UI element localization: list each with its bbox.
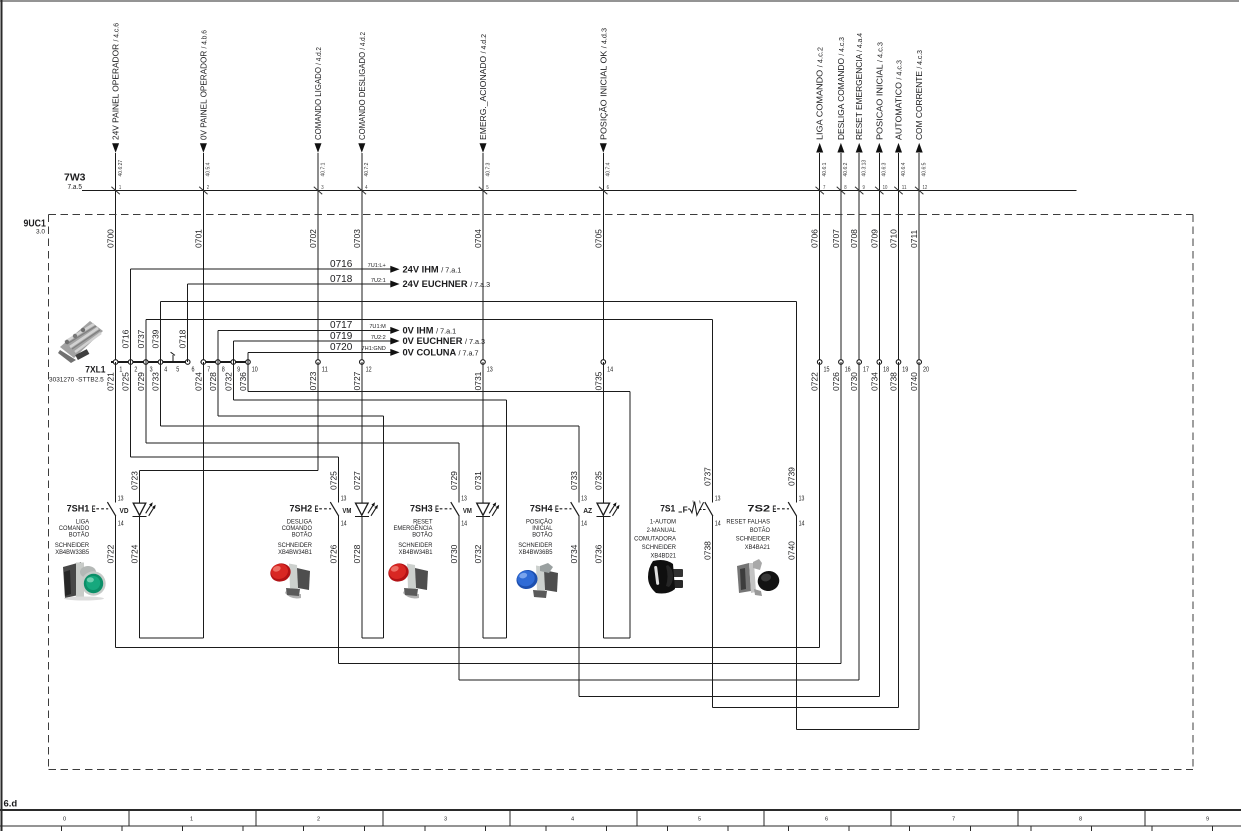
- bus junction pin 11 of 7W3: [894, 185, 906, 195]
- wire 0722 (7SH1:14 to terminal 15): [106, 362, 820, 647]
- svg-text:9: 9: [863, 185, 865, 191]
- signal arrow 24V PAINEL OPERADOR / 4.c.6: [111, 23, 124, 177]
- page border left: [1, 0, 3, 831]
- selector switch 7S1 photo (black knob): [648, 560, 683, 594]
- pushbutton contact 7SH3: [410, 496, 472, 528]
- signal arrow 24V EUCHNER / 7.a.3: [390, 279, 490, 289]
- svg-text:13: 13: [581, 496, 587, 503]
- svg-text:13: 13: [715, 496, 721, 503]
- terminal strip 7XL1 rail (terminals 1-6): [111, 361, 190, 363]
- svg-text:1-AUTOM: 1-AUTOM: [650, 518, 676, 525]
- svg-text:0724: 0724: [193, 372, 203, 391]
- svg-text:E: E: [315, 503, 319, 514]
- svg-text:14: 14: [118, 521, 124, 528]
- svg-text:0739: 0739: [786, 467, 796, 486]
- 7SH3 description: [394, 518, 434, 556]
- svg-text:14: 14: [581, 521, 587, 528]
- svg-text:0740: 0740: [909, 372, 919, 391]
- svg-text:SCHNEIDER: SCHNEIDER: [398, 542, 432, 549]
- svg-text:4: 4: [571, 817, 574, 823]
- bus junction pin 12 of 7W3: [915, 185, 927, 195]
- svg-text:14: 14: [799, 521, 805, 528]
- svg-text:1: 1: [190, 817, 193, 823]
- indicator LED 7SH2: [355, 502, 378, 516]
- svg-text:40.7:2: 40.7:2: [364, 162, 370, 176]
- svg-text:13: 13: [799, 496, 805, 503]
- terminal strip 7XL1 rail (terminals 7-10): [200, 361, 250, 363]
- terminal 7 of 7XL1: [201, 360, 210, 374]
- svg-text:BOTÃO: BOTÃO: [69, 530, 89, 539]
- terminal block 7XL1 photo: [58, 321, 103, 363]
- svg-text:40.6:5: 40.6:5: [922, 162, 928, 176]
- indicator LED 7SH3: [476, 502, 499, 516]
- svg-text:0V IHM / 7.a.1: 0V IHM / 7.a.1: [403, 326, 457, 336]
- svg-text:0702: 0702: [308, 229, 318, 248]
- svg-text:7SH2: 7SH2: [290, 503, 313, 514]
- svg-text:7XL1: 7XL1: [85, 365, 105, 375]
- svg-text:0732: 0732: [223, 372, 233, 391]
- svg-text:1: 1: [119, 185, 121, 191]
- indicator LED 7SH4: [596, 502, 619, 516]
- wire 0705 (signal POSIÇÃO INICIAL OK down to terminal strip): [593, 153, 603, 362]
- svg-text:F: F: [683, 506, 688, 515]
- wire 0716 (24V IHM): [121, 259, 391, 362]
- svg-text:0719: 0719: [330, 331, 353, 342]
- svg-text:0735: 0735: [593, 471, 603, 490]
- svg-text:7.a.5: 7.a.5: [68, 184, 83, 191]
- svg-text:7S1: 7S1: [660, 503, 675, 514]
- wire 0700 (signal 24V PAINEL OPERADOR down to terminal strip): [106, 153, 116, 362]
- svg-text:13: 13: [341, 496, 347, 503]
- svg-text:0735: 0735: [593, 371, 603, 390]
- pushbutton 7SH3 photo (red): [386, 561, 428, 599]
- svg-text:4: 4: [365, 185, 367, 191]
- svg-text:0729: 0729: [136, 372, 146, 391]
- svg-text:7SH1: 7SH1: [67, 503, 90, 514]
- terminal 18 of 7XL1: [877, 360, 889, 374]
- wire 0736 (LED 7SH4 to terminal 10): [238, 362, 630, 638]
- indicator LED 7SH1: [133, 502, 156, 516]
- bus junction pin 2 of 7W3: [199, 185, 209, 195]
- bus junction pin 6 of 7W3: [599, 185, 609, 195]
- svg-text:VM: VM: [463, 506, 472, 515]
- svg-text:0: 0: [63, 817, 66, 823]
- wire 0733 (terminal 4 to 7SH4:13): [151, 362, 579, 503]
- svg-text:SCHNEIDER: SCHNEIDER: [55, 542, 89, 549]
- svg-text:0701: 0701: [193, 229, 203, 248]
- svg-text:0727: 0727: [352, 371, 362, 390]
- svg-text:7: 7: [952, 817, 955, 823]
- svg-text:40.6:3: 40.6:3: [882, 162, 888, 176]
- signal arrow RESET EMERGENCIA / 4.a.4: [854, 33, 867, 177]
- wire 0709 (signal POSICAO INICIAL down to terminal strip): [869, 153, 879, 362]
- svg-text:7U2:2: 7U2:2: [371, 335, 386, 341]
- wire 0726 (7SH2:14 to terminal 16): [329, 362, 841, 663]
- terminal 11 of 7XL1: [316, 360, 328, 374]
- svg-text:40.7:4: 40.7:4: [606, 162, 612, 176]
- svg-text:0733: 0733: [151, 372, 161, 391]
- PLC enclosure 9UC1 (dashed box): [49, 215, 1194, 770]
- bottom column ruler: [0, 810, 1241, 831]
- svg-text:VM: VM: [342, 506, 351, 515]
- svg-text:0729: 0729: [449, 471, 459, 490]
- svg-text:13: 13: [487, 366, 493, 373]
- signal arrow LIGA COMANDO / 4.c.2: [815, 47, 828, 177]
- svg-text:40.5:4: 40.5:4: [206, 162, 212, 176]
- svg-text:17: 17: [863, 366, 869, 373]
- bus junction pin 3 of 7W3: [314, 185, 324, 195]
- pushbutton 7S2 photo (black): [737, 559, 781, 596]
- selector switch 7S1 contact: [660, 496, 721, 528]
- svg-text:VD: VD: [120, 506, 129, 515]
- svg-text:0V COLUNA / 7.a.7: 0V COLUNA / 7.a.7: [403, 348, 479, 358]
- svg-text:BOTÃO: BOTÃO: [750, 525, 770, 534]
- svg-text:40.6:2: 40.6:2: [843, 162, 849, 176]
- bus junction pin 9 of 7W3: [855, 185, 865, 195]
- svg-text:E: E: [92, 503, 96, 514]
- cable bus 7W3: [82, 190, 1076, 192]
- wire 0720 (0V COLUNA): [248, 342, 390, 362]
- wire 0729 (terminal 3 to 7SH3:13): [136, 362, 459, 503]
- svg-text:7S2: 7S2: [747, 503, 770, 514]
- svg-text:BOTÃO: BOTÃO: [292, 530, 312, 539]
- svg-text:0723: 0723: [308, 371, 318, 390]
- svg-text:SCHNEIDER: SCHNEIDER: [518, 542, 552, 549]
- svg-text:SCHNEIDER: SCHNEIDER: [642, 544, 676, 551]
- terminal 1 of 7XL1: [113, 360, 122, 374]
- svg-text:5: 5: [698, 817, 701, 823]
- terminal 16 of 7XL1: [839, 360, 851, 374]
- svg-text:XB4BW34B1: XB4BW34B1: [399, 549, 433, 556]
- wire 0701 (signal 0V PAINEL OPERADOR down to terminal strip): [193, 153, 203, 362]
- signal arrow POSICAO INICIAL / 4.c.3: [874, 42, 887, 177]
- wire 0732 (LED 7SH3 to terminal 9): [223, 362, 506, 638]
- svg-text:0730: 0730: [849, 372, 859, 391]
- svg-text:RESET FALHAS: RESET FALHAS: [726, 518, 770, 525]
- wire 0707 (signal DESLIGA COMANDO down to terminal strip): [831, 153, 841, 362]
- svg-text:5: 5: [176, 366, 179, 373]
- svg-text:12: 12: [366, 366, 372, 373]
- 7SH2 description: [278, 518, 313, 556]
- terminal 5 stub (unconnected): [171, 352, 175, 363]
- svg-text:0722: 0722: [106, 544, 116, 563]
- wire 0739 (terminal 4 up, over to 7S2:13): [151, 302, 797, 503]
- svg-text:E: E: [555, 503, 559, 514]
- svg-text:XB4BW36B5: XB4BW36B5: [519, 549, 553, 556]
- svg-text:5: 5: [486, 185, 488, 191]
- svg-text:3031270 -STTB2.5: 3031270 -STTB2.5: [49, 377, 104, 384]
- svg-text:0731: 0731: [473, 471, 483, 490]
- svg-text:24V EUCHNER / 7.a.3: 24V EUCHNER / 7.a.3: [403, 279, 491, 289]
- signal arrow EMERG._ACIONADO / 4.d.2: [478, 34, 491, 177]
- wire 0717 (0V IHM): [218, 320, 390, 362]
- svg-text:7U1:L+: 7U1:L+: [368, 263, 386, 269]
- svg-text:BOTÃO: BOTÃO: [532, 530, 552, 539]
- terminal 19 of 7XL1: [896, 360, 908, 374]
- page border top: [0, 0, 1239, 2]
- svg-text:0718: 0718: [178, 329, 188, 348]
- svg-text:0736: 0736: [238, 372, 248, 391]
- svg-text:14: 14: [607, 366, 613, 373]
- svg-text:0738: 0738: [703, 541, 713, 560]
- svg-text:3: 3: [444, 817, 447, 823]
- svg-text:0737: 0737: [136, 329, 146, 348]
- wire 0702 (signal COMANDO LIGADO down to terminal strip): [308, 153, 318, 362]
- bus junction pin 1 of 7W3: [111, 185, 121, 195]
- svg-text:40.7:3: 40.7:3: [485, 162, 491, 176]
- svg-text:14: 14: [715, 521, 721, 528]
- svg-text:40.6:27: 40.6:27: [118, 160, 124, 177]
- svg-text:2: 2: [207, 185, 209, 191]
- 7SH1 description: [55, 518, 90, 556]
- svg-text:0723: 0723: [130, 471, 140, 490]
- svg-text:0740: 0740: [786, 541, 796, 560]
- svg-text:E: E: [435, 503, 439, 514]
- svg-text:AZ: AZ: [583, 506, 593, 515]
- bus junction pin 5 of 7W3: [479, 185, 489, 195]
- wire 0740 (7S2:14 to terminal 20): [786, 362, 919, 730]
- wire 0730 (7SH3:14 to terminal 17): [449, 362, 859, 680]
- terminal 6 of 7XL1: [185, 360, 194, 374]
- svg-text:EMERGÊNCIA: EMERGÊNCIA: [394, 523, 434, 532]
- svg-text:3: 3: [321, 185, 323, 191]
- svg-text:0721: 0721: [106, 372, 116, 391]
- svg-text:7W3: 7W3: [64, 172, 86, 184]
- signal arrow COM CORRENTE / 4.c.3: [914, 50, 927, 177]
- svg-text:3.0: 3.0: [36, 229, 45, 236]
- pushbutton contact 7SH4: [530, 496, 593, 528]
- pushbutton 7SH4 photo (blue): [514, 563, 558, 598]
- svg-text:0716: 0716: [330, 259, 353, 270]
- svg-text:0718: 0718: [330, 274, 353, 285]
- svg-text:0720: 0720: [330, 342, 353, 353]
- wire 0718 (24V EUCHNER): [178, 274, 391, 362]
- svg-text:19: 19: [902, 366, 908, 373]
- terminal 20 of 7XL1: [917, 360, 929, 374]
- terminal 17 of 7XL1: [857, 360, 869, 374]
- wire 0737 (terminal 3 up, over to 7S1:13): [136, 320, 713, 503]
- terminal 9 of 7XL1: [231, 360, 240, 374]
- terminal 4 of 7XL1: [158, 360, 167, 374]
- signal arrow 24V IHM / 7.a.1: [390, 264, 461, 274]
- svg-text:COMUTADORA: COMUTADORA: [634, 535, 676, 542]
- svg-text:15: 15: [824, 366, 830, 373]
- bus junction pin 10 of 7W3: [875, 185, 887, 195]
- wire 0703 (signal COMANDO DESLIGADO down to terminal strip): [352, 153, 362, 362]
- signal arrow COMANDO LIGADO / 4.d.2: [313, 47, 326, 177]
- svg-text:8: 8: [1079, 817, 1082, 823]
- svg-text:0V EUCHNER / 7.a.3: 0V EUCHNER / 7.a.3: [403, 336, 486, 346]
- svg-text:13: 13: [118, 496, 124, 503]
- 9UC1 label: [24, 219, 47, 236]
- svg-text:0737: 0737: [703, 467, 713, 486]
- svg-text:0722: 0722: [810, 372, 820, 391]
- wire 0735 (terminal 14 to LED 7SH4): [593, 362, 603, 503]
- svg-text:0716: 0716: [121, 329, 131, 348]
- wire 0719 (0V EUCHNER): [233, 331, 390, 362]
- terminal 2 of 7XL1: [128, 360, 137, 374]
- svg-text:14: 14: [461, 521, 467, 528]
- svg-text:40.6:4: 40.6:4: [901, 162, 907, 176]
- svg-text:7SH3: 7SH3: [410, 503, 433, 514]
- signal arrow 0V EUCHNER / 7.a.3: [390, 336, 485, 346]
- terminal 14 of 7XL1: [601, 360, 613, 374]
- wire 0724 (LED 7SH1 to terminal 7): [130, 362, 204, 638]
- svg-text:7H1:GND: 7H1:GND: [362, 346, 386, 352]
- svg-text:XB4BA21: XB4BA21: [745, 544, 770, 551]
- svg-text:7U2:1: 7U2:1: [371, 278, 386, 284]
- svg-text:0726: 0726: [329, 544, 339, 563]
- wire 0706 (signal LIGA COMANDO down to terminal strip): [810, 153, 820, 362]
- pushbutton contact 7SH2: [290, 496, 352, 528]
- svg-text:10: 10: [883, 185, 888, 191]
- svg-text:2-MANUAL: 2-MANUAL: [647, 527, 677, 534]
- svg-text:0700: 0700: [106, 229, 116, 248]
- wire 0725 (terminal 2 to 7SH2:13): [121, 362, 339, 503]
- signal arrow COMANDO DESLIGADO / 4.d.2: [357, 32, 370, 177]
- svg-text:0710: 0710: [889, 229, 899, 248]
- svg-text:SCHNEIDER: SCHNEIDER: [736, 535, 770, 542]
- wire 0708 (signal RESET EMERGENCIA down to terminal strip): [849, 153, 859, 362]
- wire 0704 (signal EMERG._ACIONADO down to terminal strip): [473, 153, 483, 362]
- svg-text:0726: 0726: [831, 372, 841, 391]
- svg-text:SCHNEIDER: SCHNEIDER: [278, 542, 312, 549]
- svg-text:6: 6: [825, 817, 828, 823]
- wire 0738 (7S1:14 to terminal 19): [703, 362, 899, 708]
- pushbutton 7SH1 photo (green): [63, 562, 106, 601]
- svg-text:12: 12: [923, 185, 928, 191]
- svg-text:0730: 0730: [449, 544, 459, 563]
- svg-text:24V IHM / 7.a.1: 24V IHM / 7.a.1: [403, 264, 462, 274]
- svg-text:XB4BW33B5: XB4BW33B5: [55, 549, 89, 556]
- svg-text:0728: 0728: [352, 544, 362, 563]
- svg-text:0734: 0734: [569, 544, 579, 563]
- 7XL1 labels: [49, 365, 106, 384]
- svg-text:0706: 0706: [810, 229, 820, 248]
- svg-text:0707: 0707: [831, 229, 841, 248]
- svg-text:0734: 0734: [869, 372, 879, 391]
- svg-text:0736: 0736: [593, 544, 603, 563]
- svg-text:0725: 0725: [121, 372, 131, 391]
- svg-text:0728: 0728: [208, 372, 218, 391]
- pushbutton contact 7S2: [747, 496, 804, 528]
- svg-text:E: E: [773, 503, 777, 514]
- svg-text:2: 2: [317, 817, 320, 823]
- svg-text:6: 6: [607, 185, 609, 191]
- 7S2 description: [726, 518, 770, 551]
- wire 0727 (terminal 12 to LED 7SH2): [352, 362, 362, 503]
- 7SH4 description: [518, 516, 552, 556]
- svg-text:40.3:13: 40.3:13: [862, 160, 868, 177]
- svg-text:11: 11: [322, 366, 328, 373]
- svg-text:0711: 0711: [909, 229, 919, 248]
- svg-text:7U1:M: 7U1:M: [369, 324, 386, 330]
- svg-text:11: 11: [902, 185, 907, 191]
- svg-text:0732: 0732: [473, 544, 483, 563]
- signal arrow DESLIGA COMANDO / 4.c.3: [836, 37, 849, 177]
- wire 0723 (terminal 11 to LED 7SH1): [130, 362, 319, 503]
- wire 0710 (signal AUTOMATICO down to terminal strip): [889, 153, 899, 362]
- wire 0731 (terminal 13 to LED 7SH3): [473, 362, 483, 503]
- svg-text:7: 7: [823, 185, 825, 191]
- svg-text:0725: 0725: [329, 471, 339, 490]
- 7S1 description: [634, 518, 676, 559]
- svg-text:10: 10: [252, 366, 258, 373]
- svg-text:XB4BD21: XB4BD21: [651, 552, 677, 559]
- svg-text:14: 14: [341, 521, 347, 528]
- signal arrow POSIÇÃO INICIAL OK / 4.d.3: [598, 28, 611, 177]
- svg-text:0738: 0738: [889, 372, 899, 391]
- svg-text:0708: 0708: [849, 229, 859, 248]
- wire 0734 (7SH4:14 to terminal 18): [569, 362, 879, 696]
- svg-text:40.6:1: 40.6:1: [822, 162, 828, 176]
- svg-text:BOTÃO: BOTÃO: [412, 530, 432, 539]
- terminal 10 of 7XL1: [246, 360, 258, 374]
- signal arrow AUTOMATICO / 4.c.3: [894, 60, 907, 177]
- svg-text:0739: 0739: [151, 329, 161, 348]
- svg-text:7SH4: 7SH4: [530, 503, 553, 514]
- svg-text:6.d: 6.d: [4, 799, 18, 810]
- wire 0721 (terminal 1 to 7SH1:13): [106, 362, 116, 503]
- pushbutton contact 7SH1: [67, 496, 129, 528]
- svg-text:XB4BW34B1: XB4BW34B1: [278, 549, 312, 556]
- svg-text:9: 9: [1206, 817, 1209, 823]
- terminal 8 of 7XL1: [216, 360, 225, 374]
- svg-text:0731: 0731: [473, 371, 483, 390]
- terminal 3 of 7XL1: [144, 360, 153, 374]
- terminal 15 of 7XL1: [817, 360, 829, 374]
- terminal 12 of 7XL1: [360, 360, 372, 374]
- svg-text:4: 4: [164, 366, 167, 373]
- svg-text:0724: 0724: [130, 544, 140, 563]
- svg-text:0705: 0705: [593, 229, 603, 248]
- bus junction pin 8 of 7W3: [837, 185, 847, 195]
- svg-text:0727: 0727: [352, 471, 362, 490]
- wire 0711 (signal COM CORRENTE down to terminal strip): [909, 153, 919, 362]
- svg-text:13: 13: [461, 496, 467, 503]
- svg-text:0709: 0709: [869, 229, 879, 248]
- signal arrow 0V IHM / 7.a.1: [390, 326, 456, 336]
- pushbutton 7SH2 photo (red): [268, 561, 310, 599]
- svg-text:20: 20: [923, 366, 929, 373]
- svg-text:0733: 0733: [569, 471, 579, 490]
- svg-text:0717: 0717: [330, 320, 353, 331]
- svg-text:0704: 0704: [473, 229, 483, 248]
- svg-text:8: 8: [844, 185, 846, 191]
- signal arrow 0V COLUNA / 7.a.7: [390, 348, 478, 358]
- svg-text:0703: 0703: [352, 229, 362, 248]
- signal arrow 0V PAINEL OPERADOR / 4.b.6: [198, 30, 211, 177]
- wire 0728 (LED 7SH2 to terminal 8): [208, 362, 383, 638]
- bus junction pin 4 of 7W3: [358, 185, 368, 195]
- svg-text:40.7:1: 40.7:1: [320, 162, 326, 176]
- bus junction pin 7 of 7W3: [816, 185, 826, 195]
- terminal 13 of 7XL1: [481, 360, 493, 374]
